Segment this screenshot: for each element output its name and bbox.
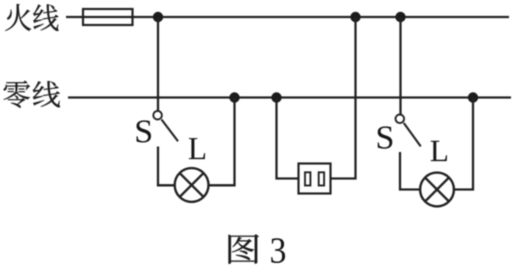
switch S2 pivot circle <box>396 115 405 124</box>
switch S2 blade (open) <box>404 123 421 146</box>
lamp L1 cross stroke 1 <box>180 173 204 197</box>
wire: right switch lower lead down to lamp L2 <box>400 152 420 190</box>
node: junction dot neutral/right-lamp-return <box>468 92 478 102</box>
wire: left branch drop from live wire to switch S1 <box>157 17 159 111</box>
lamp L2 cross stroke 2 <box>425 178 449 202</box>
node: junction dot live/left-branch <box>153 12 163 22</box>
lamp L1 cross stroke 2 <box>180 173 204 197</box>
node: junction dot live/socket-branch <box>350 12 360 22</box>
caption 图 3: digit 3 <box>271 238 285 263</box>
caption 图 3: char 图 <box>229 234 259 263</box>
wire: left switch lower lead down to lamp L1 <box>158 147 175 186</box>
wire: socket branch from neutral dot down and right <box>277 98 299 179</box>
switch S1 blade (open) <box>162 120 179 142</box>
node: junction dot live/right-branch <box>395 12 405 22</box>
wire: socket right lead up to live wire <box>331 17 356 179</box>
wire: lamp L2 return to neutral <box>454 98 473 190</box>
wire: live wire horizontal <box>66 16 509 18</box>
lamp L2 circle <box>420 173 454 207</box>
lamp L2 cross stroke 1 <box>425 178 449 202</box>
label S (right switch) <box>378 126 393 148</box>
lamp L1 circle <box>175 168 209 202</box>
switch S1 pivot circle <box>153 111 162 120</box>
label 零线 (neutral wire label) <box>4 81 60 108</box>
socket (两孔插座) body <box>299 164 331 194</box>
wire: lamp L1 return to neutral <box>208 98 234 186</box>
label L (right lamp) <box>431 141 447 161</box>
fuse (保险丝) on live wire <box>83 9 133 25</box>
node: junction dot neutral/socket-left <box>271 92 281 102</box>
node: junction dot neutral/left-lamp-return <box>229 92 239 102</box>
socket slot left <box>305 172 310 185</box>
wire: neutral wire horizontal <box>68 96 511 98</box>
label L (left lamp) <box>189 138 205 159</box>
wire: right branch drop from live wire to switch S2 <box>399 17 401 114</box>
label 火线 (live wire label) <box>5 4 58 31</box>
socket slot right <box>319 172 324 185</box>
label S (left switch) <box>137 120 151 142</box>
